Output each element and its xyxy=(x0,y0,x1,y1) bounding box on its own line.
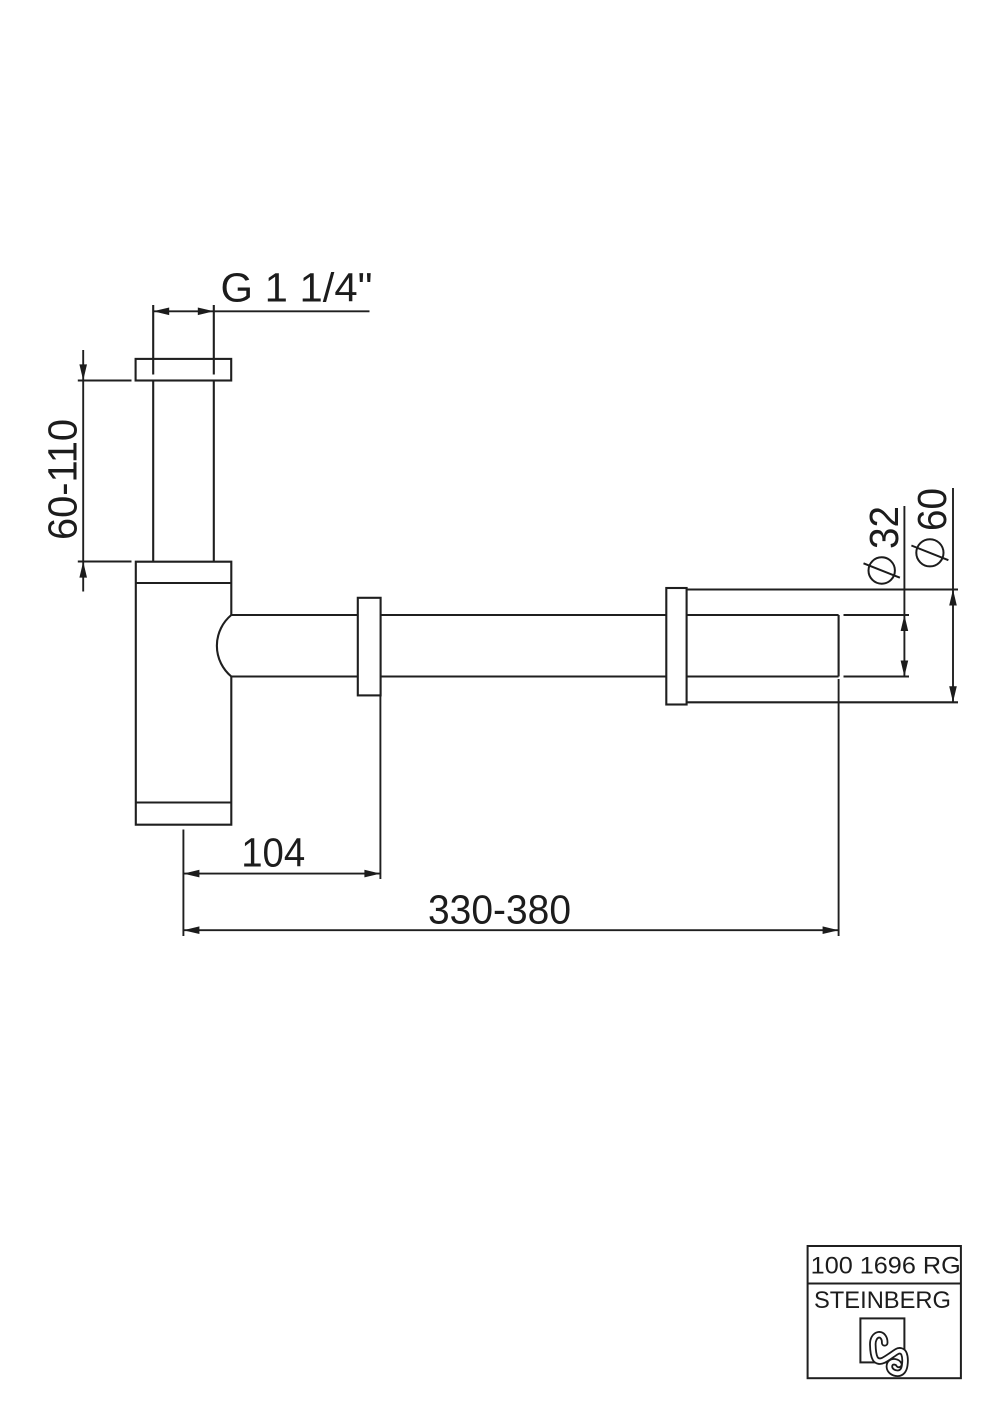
svg-text:G 1 1/4": G 1 1/4" xyxy=(221,265,373,311)
svg-text:32: 32 xyxy=(861,506,907,549)
svg-text:60: 60 xyxy=(909,488,955,531)
svg-text:STEINBERG: STEINBERG xyxy=(814,1287,951,1314)
svg-text:330-380: 330-380 xyxy=(428,886,571,932)
svg-text:104: 104 xyxy=(241,830,305,876)
svg-text:60-110: 60-110 xyxy=(39,419,85,540)
svg-text:100 1696 RG: 100 1696 RG xyxy=(811,1252,961,1279)
